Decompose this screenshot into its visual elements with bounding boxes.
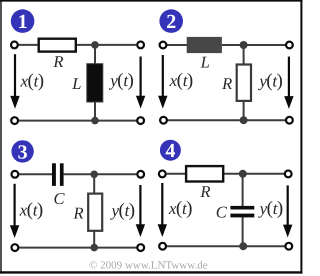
node junction top P2 [240,41,248,49]
wire shunt upper P1 [94,45,96,65]
inductor L (series, panel 2) [187,37,222,53]
panel badge 1 [11,9,35,33]
capacitor C (shunt, panel 4) plate bottom [230,214,254,218]
panel badge 4 [160,140,181,163]
terminal output top P4 [285,171,292,178]
wire junction-to-right P3 [94,173,136,175]
svg-text:2: 2 [166,11,176,33]
capacitor C (series, panel 3) plate right [60,163,64,186]
node junction bottom P1 [91,117,99,125]
terminal input bottom P3 [12,244,19,251]
terminal output bottom P2 [286,117,293,124]
node junction bottom P4 [239,242,247,250]
wire resistor-to-junction P4 [224,173,242,175]
arrow y(t) P4 [283,185,292,237]
svg-text:4: 4 [165,140,175,162]
resistor R (series, panel 1) [39,39,76,52]
wire junction-to-right P4 [243,173,284,175]
terminal input bottom P2 [160,117,167,124]
wire bottom P1 [15,120,141,122]
arrow y(t) P3 [136,185,145,237]
terminal input top P1 [11,42,18,49]
panel badge 2 [159,9,183,33]
wire shunt upper P4 [242,174,244,206]
svg-text:y(t): y(t) [108,70,133,91]
wire shunt upper P2 [243,45,245,65]
terminal output top P3 [137,171,144,178]
svg-text:C: C [53,189,65,208]
svg-text:x(t): x(t) [169,70,193,91]
wire shunt lower P1 [94,101,96,121]
wire top-left P3 [19,173,52,175]
arrow x(t) P3 [10,184,19,238]
terminal output bottom P4 [285,243,292,250]
svg-text:3: 3 [18,141,28,163]
wire bottom P2 [163,119,289,121]
svg-text:L: L [200,53,210,72]
capacitor C (shunt, panel 4) plate top [230,206,254,210]
wire shunt lower P3 [93,231,95,248]
wire shunt lower P4 [242,217,244,246]
resistor R (shunt, panel 3) [88,194,102,231]
svg-text:x(t): x(t) [168,198,192,219]
terminal input bottom P4 [159,243,166,250]
node junction top P1 [91,41,99,49]
wire junction-to-right P1 [95,44,136,46]
node junction top P3 [90,171,98,179]
terminal output bottom P1 [137,117,144,124]
wire shunt lower P2 [243,101,245,120]
svg-text:x(t): x(t) [19,200,43,221]
svg-text:R: R [199,182,210,201]
arrow x(t) P2 [158,55,167,109]
svg-text:© 2009 www.LNTwww.de: © 2009 www.LNTwww.de [89,260,208,272]
svg-text:y(t): y(t) [257,70,282,91]
terminal input top P4 [159,171,166,178]
node junction bottom P3 [90,244,98,252]
wire bottom P4 [163,245,289,247]
terminal output top P1 [137,42,144,49]
arrow y(t) P2 [284,57,293,109]
wire junction-to-right P2 [244,44,285,46]
wire top-left P2 [167,44,187,46]
resistor R (series, panel 4) [186,166,223,181]
inductor L (shunt, panel 1) [87,64,103,102]
wire top-left P4 [167,173,186,175]
wire resistor-to-junction P1 [77,44,95,46]
node junction bottom P2 [240,116,248,124]
resistor R (shunt, panel 2) [237,65,251,101]
arrow y(t) P1 [136,57,145,109]
terminal input top P3 [12,171,19,178]
arrow x(t) P1 [10,54,19,108]
wire bottom P3 [15,247,141,249]
svg-text:R: R [52,52,63,71]
terminal input top P2 [160,42,167,49]
wire cap-to-junction P3 [64,173,95,175]
arrow x(t) P4 [158,183,167,237]
terminal output bottom P3 [137,244,144,251]
panel badge 3 [11,140,33,163]
terminal input bottom P1 [11,117,18,124]
svg-text:x(t): x(t) [20,70,44,91]
svg-text:R: R [221,74,232,93]
terminal output top P2 [286,42,293,49]
capacitor C (series, panel 3) plate left [52,163,56,186]
svg-text:y(t): y(t) [110,200,135,221]
svg-text:R: R [72,204,83,223]
wire top-left P1 [18,44,38,46]
svg-text:y(t): y(t) [258,198,283,219]
wire shunt upper P3 [93,174,95,194]
svg-text:C: C [216,203,228,222]
wire inductor-to-junction P2 [222,44,244,46]
node junction top P4 [239,170,247,178]
svg-text:L: L [71,74,81,93]
svg-text:1: 1 [18,11,28,33]
